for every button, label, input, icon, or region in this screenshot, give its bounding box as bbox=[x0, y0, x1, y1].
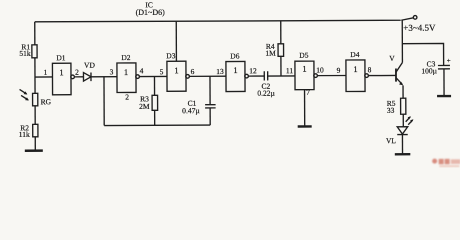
label D4 bbox=[350, 50, 359, 59]
label RG bbox=[41, 97, 52, 106]
transistor V bbox=[396, 62, 403, 85]
gate D4 inverter bbox=[346, 60, 369, 92]
node +3~4.5V terminal bbox=[413, 16, 417, 20]
label R4 value bbox=[265, 42, 276, 58]
capacitor C1 bbox=[205, 105, 216, 108]
wire R1 to RG bbox=[34, 58, 36, 93]
wire collector up to rail bbox=[401, 20, 403, 62]
resistor R4 bbox=[278, 44, 284, 57]
pin number 2 below D2 bbox=[125, 92, 129, 101]
wire RG to R2 bbox=[34, 106, 36, 124]
svg-text:4: 4 bbox=[140, 66, 144, 75]
svg-text:D4: D4 bbox=[350, 50, 359, 59]
svg-text:0.47µ: 0.47µ bbox=[182, 106, 200, 115]
wire R3 bottom to feedback bbox=[154, 110, 156, 125]
wire VD to D2 input bbox=[91, 76, 117, 78]
svg-text:D6: D6 bbox=[230, 51, 239, 60]
pin number 12 bbox=[249, 66, 257, 75]
svg-text:11: 11 bbox=[286, 66, 294, 75]
wire rail to R4 bbox=[280, 21, 282, 44]
pin number 6 bbox=[191, 67, 195, 76]
label VD bbox=[84, 61, 95, 70]
svg-text:2: 2 bbox=[125, 92, 129, 101]
pin number 2 bbox=[75, 68, 79, 77]
pin 1 of D6 inside bbox=[233, 65, 237, 75]
wire C3 to ground bbox=[443, 69, 445, 95]
label +3~4.5V bbox=[403, 23, 436, 33]
wire C2 to D5 input bbox=[268, 75, 295, 77]
pin number 8 bbox=[368, 65, 372, 74]
resistor R5 bbox=[401, 98, 406, 114]
wire R4 to main line bbox=[280, 56, 282, 76]
ground under R2 bbox=[25, 149, 43, 152]
svg-text:1M: 1M bbox=[265, 49, 276, 58]
resistor R1 bbox=[32, 45, 37, 58]
wire R3 top drop bbox=[153, 77, 155, 96]
label D5 bbox=[299, 51, 308, 60]
label R5 value bbox=[387, 99, 396, 115]
wire left vertical from rail to R1 bbox=[34, 22, 36, 45]
svg-text:D2: D2 bbox=[121, 53, 130, 62]
label V transistor bbox=[389, 54, 395, 63]
svg-text:12: 12 bbox=[249, 66, 257, 75]
pin 1 of D5 inside bbox=[302, 64, 306, 74]
label R2 value bbox=[19, 123, 30, 139]
svg-text:V: V bbox=[389, 54, 395, 63]
svg-text:100µ: 100µ bbox=[421, 66, 437, 75]
pin number 10 bbox=[316, 65, 324, 74]
wire D5 pin7 to ground bbox=[304, 90, 306, 126]
label D1 bbox=[56, 53, 65, 62]
polarity plus of C3 bbox=[447, 57, 451, 65]
svg-text:D1: D1 bbox=[56, 53, 65, 62]
pin number 1 bbox=[44, 68, 48, 77]
resistor R2 bbox=[33, 124, 38, 137]
label D3 bbox=[166, 51, 175, 60]
svg-text:33: 33 bbox=[387, 106, 395, 115]
svg-text:1: 1 bbox=[124, 67, 128, 77]
gate D1 inverter bbox=[52, 63, 74, 95]
pin 1 of D2 inside bbox=[124, 67, 128, 77]
svg-text:9: 9 bbox=[337, 66, 341, 75]
pin number 3 bbox=[110, 67, 114, 76]
svg-text:+3~4.5V: +3~4.5V bbox=[403, 23, 436, 33]
pin number 9 bbox=[337, 66, 341, 75]
ground under C3 bbox=[437, 95, 451, 97]
LED VL bbox=[397, 116, 413, 134]
svg-text:1: 1 bbox=[59, 67, 63, 77]
pin 1 of D3 inside bbox=[174, 65, 178, 75]
wire rail to terminal bbox=[401, 18, 413, 20]
photoresistor RG bbox=[20, 89, 38, 106]
resistor R3 bbox=[152, 95, 158, 110]
diode VD bbox=[83, 73, 91, 82]
wire supply drop to D3 bbox=[175, 21, 177, 61]
svg-text:1: 1 bbox=[302, 64, 306, 74]
ground under D5 bbox=[298, 125, 312, 127]
wire node A branch to D1 input bbox=[35, 76, 52, 78]
label R3 value bbox=[139, 94, 150, 111]
svg-text:6: 6 bbox=[191, 67, 195, 76]
wire R5 to LED bbox=[402, 114, 404, 126]
pin number 5 bbox=[160, 67, 164, 76]
svg-text:2: 2 bbox=[75, 68, 79, 77]
pin number 11 bbox=[286, 66, 294, 75]
wire R2 to ground bbox=[34, 137, 36, 150]
pin number 4 bbox=[140, 66, 144, 75]
svg-text:1: 1 bbox=[233, 65, 237, 75]
svg-text:0.22µ: 0.22µ bbox=[257, 89, 275, 98]
wire node A down bbox=[103, 77, 105, 126]
label R1 value bbox=[19, 42, 31, 58]
capacitor C2 bbox=[264, 71, 267, 80]
svg-text:VD: VD bbox=[84, 61, 95, 70]
wire LED to ground bbox=[401, 135, 403, 154]
svg-text:RG: RG bbox=[41, 97, 52, 106]
svg-text:+: + bbox=[447, 57, 451, 65]
wire emitter to R5 bbox=[402, 85, 404, 98]
gate D2 inverter bbox=[117, 63, 140, 93]
gate D5 inverter bbox=[295, 61, 318, 90]
wire D4 out to base bbox=[368, 74, 396, 76]
label C1 value bbox=[182, 99, 200, 115]
wire D2 out to D3 input bbox=[139, 75, 167, 77]
svg-text:51k: 51k bbox=[19, 49, 31, 58]
pin 1 of D4 inside bbox=[353, 64, 357, 74]
watermark logo bbox=[432, 158, 460, 167]
wire D5 out to D4 input bbox=[317, 74, 346, 76]
pin number 7 bbox=[306, 88, 310, 97]
wire D3 out to D6 input bbox=[189, 75, 226, 77]
capacitor C3 bbox=[438, 65, 450, 68]
svg-text:3: 3 bbox=[110, 67, 114, 76]
wire D6 out to C2 bbox=[248, 75, 264, 77]
wire C1 top drop bbox=[209, 76, 211, 104]
label VL bbox=[386, 136, 396, 145]
svg-text:10: 10 bbox=[316, 65, 324, 74]
wire D1 out to VD bbox=[74, 76, 83, 78]
label C2 value bbox=[257, 82, 275, 98]
svg-text:11k: 11k bbox=[19, 130, 30, 139]
svg-text:D5: D5 bbox=[299, 51, 308, 60]
pin 1 of D1 inside bbox=[59, 67, 63, 77]
svg-text:7: 7 bbox=[306, 88, 310, 97]
svg-text:D3: D3 bbox=[166, 51, 175, 60]
wire top supply rail bbox=[35, 20, 401, 22]
svg-text:5: 5 bbox=[160, 67, 164, 76]
pin number 13 bbox=[216, 67, 224, 76]
svg-text:VL: VL bbox=[386, 136, 396, 145]
svg-text:2M: 2M bbox=[139, 102, 150, 111]
wire rail branch to C3 bbox=[402, 43, 443, 65]
gate D3 inverter bbox=[167, 61, 190, 91]
svg-text:8: 8 bbox=[368, 65, 372, 74]
ground under VL bbox=[395, 153, 410, 155]
wire C1 bottom to feedback bbox=[209, 108, 211, 125]
label C3 value bbox=[421, 59, 437, 75]
svg-text:1: 1 bbox=[174, 65, 178, 75]
label IC bbox=[136, 0, 166, 17]
svg-text:1: 1 bbox=[44, 68, 48, 77]
svg-text:1: 1 bbox=[353, 64, 357, 74]
wire feedback bottom bbox=[104, 124, 210, 126]
svg-text:(D1~D6): (D1~D6) bbox=[136, 8, 166, 17]
svg-text:13: 13 bbox=[216, 67, 224, 76]
gate D6 inverter bbox=[226, 61, 249, 91]
label D6 bbox=[230, 51, 239, 60]
label D2 bbox=[121, 53, 130, 62]
